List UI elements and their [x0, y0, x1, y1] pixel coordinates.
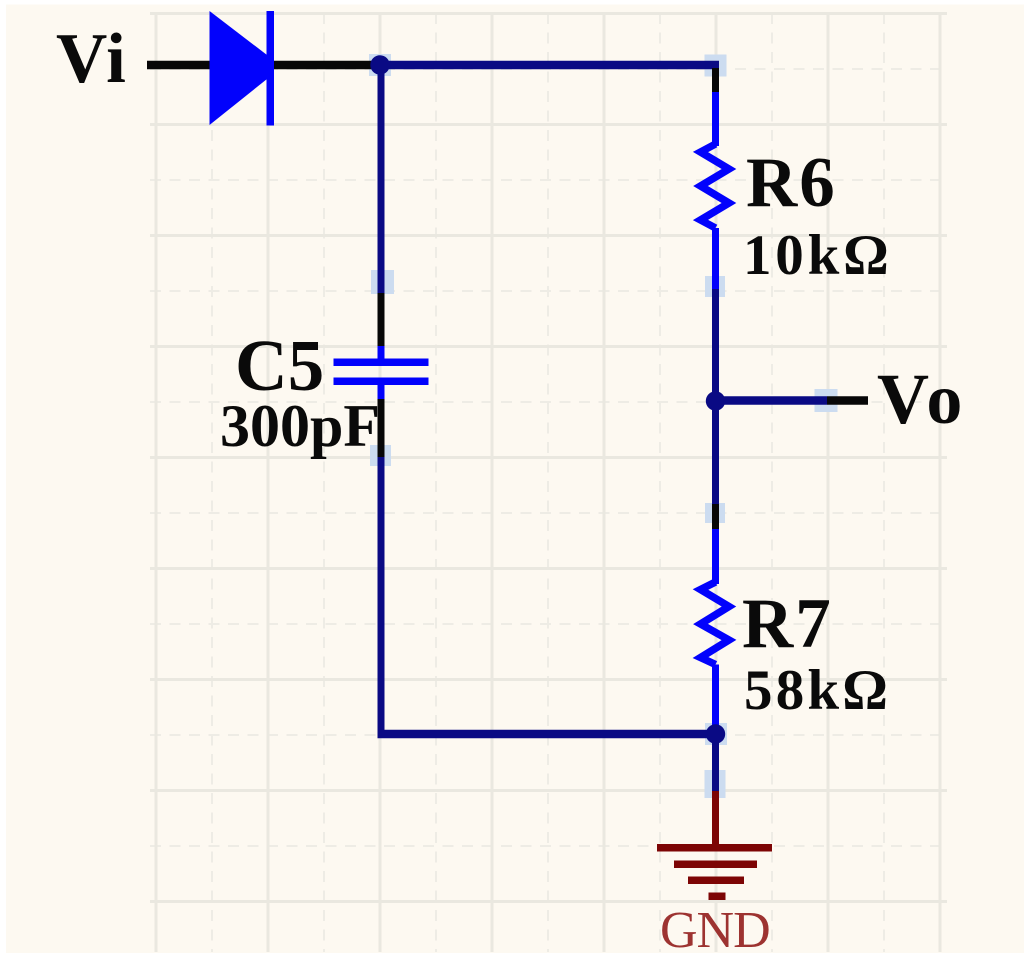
ground symbol	[657, 844, 772, 900]
wire C5 bottom plate stub (blue)	[378, 385, 385, 399]
wire node Vo down (navy)	[712, 401, 719, 504]
wire black segment above C5	[378, 293, 385, 346]
diode D1	[210, 11, 275, 126]
wire node A to R6 corner (navy)	[380, 61, 719, 70]
wire R7 bottom to node B (blue)	[712, 665, 719, 727]
node B junction dot	[706, 724, 725, 743]
wire black segment above R7	[712, 504, 719, 529]
resistor R7	[701, 582, 730, 665]
svg-text:58kΩ: 58kΩ	[744, 659, 891, 722]
wire diode cathode to node A (black)	[274, 61, 376, 70]
capacitor C5	[334, 359, 429, 386]
svg-text:300pF: 300pF	[220, 393, 380, 459]
wire R6 to node Vo (navy)	[712, 289, 719, 404]
node Vo junction dot	[706, 391, 725, 410]
net hotspot markers	[369, 54, 838, 798]
wire blue stub to R7 top	[712, 529, 719, 584]
svg-text:Vi: Vi	[56, 20, 127, 98]
wire node B to ground (navy)	[712, 734, 719, 791]
wire R6 bottom stub (blue)	[712, 228, 719, 289]
svg-text:GND: GND	[660, 902, 770, 959]
resistor R6	[701, 144, 730, 228]
wire C5 to bottom rail (navy)	[378, 457, 385, 738]
svg-text:10kΩ: 10kΩ	[743, 224, 893, 287]
wire blue stub to C5 top plate	[378, 346, 385, 360]
wire black to R6 top (blue stub)	[712, 92, 719, 146]
wire output stub end (black)	[827, 396, 868, 405]
wire node Vo to output stub (navy)	[716, 396, 828, 405]
wire ground lead (dark red)	[712, 791, 719, 849]
wire node A down to C5 (navy)	[378, 65, 385, 293]
wire black segment below C5	[378, 399, 385, 457]
svg-text:R6: R6	[746, 144, 837, 222]
svg-text:Vo: Vo	[877, 359, 966, 439]
svg-text:R7: R7	[742, 585, 833, 663]
wire bottom rail (navy)	[378, 730, 717, 739]
node A junction dot	[370, 55, 389, 74]
wire R6 corner black segment	[712, 68, 719, 92]
wire Vi to diode anode (black)	[147, 61, 211, 70]
